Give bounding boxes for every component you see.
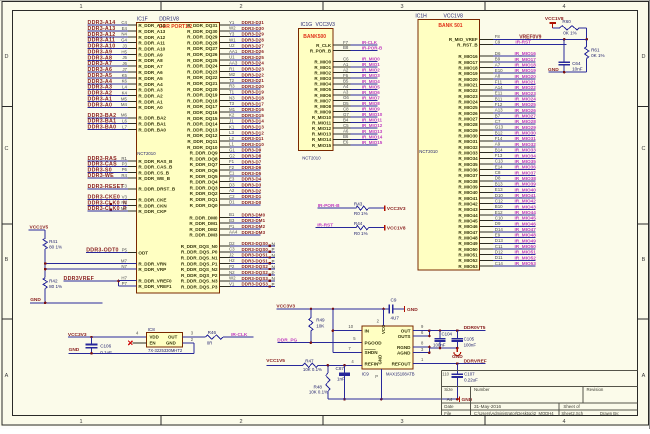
IC1F pin T3 net DDR3-D17 [187, 101, 264, 109]
svg-text:R_DDR_VRP: R_DDR_VRP [138, 267, 166, 272]
power VCC1V5 left [29, 225, 49, 231]
IC1F pin G4 net DDR3-A11 [88, 38, 166, 46]
svg-text:F8: F8 [495, 34, 501, 39]
svg-text:R_DDR_A8: R_DDR_A8 [138, 58, 163, 63]
IC1H pin F13 net IR_MIO34 [458, 153, 536, 161]
svg-text:C10: C10 [495, 215, 504, 220]
svg-text:4: 4 [562, 4, 565, 10]
IC1G pin C5 net IR_MIO12 [312, 123, 383, 131]
svg-text:R_DDR_DQ20: R_DDR_DQ20 [187, 87, 218, 92]
svg-text:DDR3-DQS1: DDR3-DQS1 [242, 253, 269, 258]
svg-text:R_DDR_DQ11: R_DDR_DQ11 [187, 139, 218, 144]
svg-text:L6: L6 [122, 119, 127, 124]
svg-text:R_DDR_DQ21: R_DDR_DQ21 [187, 81, 218, 86]
svg-text:DDR3-D8: DDR3-D8 [242, 154, 262, 159]
svg-text:DDR3-D23: DDR3-D23 [242, 67, 265, 72]
svg-text:110: 110 [442, 372, 449, 377]
svg-text:0.22uF: 0.22uF [464, 377, 478, 382]
svg-text:DDR3-DM1: DDR3-DM1 [242, 218, 266, 223]
IC1F pin C4 net DDR3-A14 [88, 20, 166, 28]
IC1G pin F7 net IR-CLK [316, 40, 378, 48]
IC1H pin D12 net IR_MIO51 [458, 249, 536, 257]
IC1G pin A3 net IR_MIO6 [314, 90, 380, 98]
svg-text:B13: B13 [495, 181, 503, 186]
IC1F pin P6 net DDR3-S0 [88, 167, 170, 175]
svg-text:NCT2010: NCT2010 [419, 149, 438, 154]
svg-text:10: 10 [348, 324, 353, 329]
IC1G pin B5 net IR_MIO4 [314, 79, 380, 87]
svg-text:F1: F1 [229, 159, 235, 164]
svg-text:D3: D3 [229, 182, 235, 187]
svg-text:R_DDR_DQ13: R_DDR_DQ13 [187, 127, 218, 132]
svg-text:R_DDR_DM1: R_DDR_DM1 [189, 221, 218, 226]
svg-text:IR_MIO29: IR_MIO29 [515, 125, 537, 130]
svg-text:BANK 501: BANK 501 [438, 23, 462, 29]
svg-text:OUT: OUT [168, 335, 178, 340]
IC1H pin A9 net IR_MIO32 [458, 142, 536, 150]
IC1H pin B12 net IR_MIO30 [458, 130, 536, 138]
svg-text:J6: J6 [122, 61, 127, 66]
svg-text:C8: C8 [343, 106, 349, 111]
ground GND left [30, 297, 102, 304]
svg-text:M2: M2 [121, 206, 128, 211]
svg-text:0K 1%: 0K 1% [563, 31, 577, 36]
svg-text:ODT: ODT [138, 251, 148, 256]
svg-text:IR_MIO0: IR_MIO0 [362, 57, 381, 62]
svg-text:C: C [5, 146, 9, 152]
IC1H pin C12 net IR_MIO42 [458, 198, 536, 206]
svg-text:R_MIO5: R_MIO5 [314, 87, 331, 92]
svg-text:DDR3-DQS2: DDR3-DQS2 [242, 270, 269, 275]
IC1F pin J7 net DDR3-A6 [88, 67, 164, 75]
IC1F pin K5 net DDR3-A5 [88, 73, 164, 81]
svg-text:E12: E12 [495, 210, 503, 215]
IC1F pin T2 net DDR3-D21 [187, 78, 264, 86]
svg-text:F2: F2 [229, 165, 235, 170]
svg-text:R_MIO1: R_MIO1 [314, 65, 331, 70]
net label DDR_PG wire to PGOOD [277, 336, 362, 344]
svg-text:C106: C106 [100, 344, 111, 349]
resistor R46 [205, 330, 223, 346]
IC1F pin M2 net DDR3-D22 [187, 72, 264, 80]
svg-text:R_DDR_CS_B: R_DDR_CS_B [138, 170, 169, 175]
IC1H pin D11 net IR_MIO52 [458, 255, 536, 263]
power VCC1V8 top right [545, 16, 564, 28]
svg-text:3: 3 [400, 419, 403, 425]
svg-text:B5: B5 [343, 79, 349, 84]
svg-text:C4: C4 [121, 20, 127, 25]
IC1H pin E11 net IR_MIO23 [458, 91, 536, 99]
IC1H pin B9 net IR_MIO17 [458, 57, 536, 65]
svg-text:R_DDR_DQ12: R_DDR_DQ12 [187, 133, 218, 138]
svg-text:R_DDR_DM3: R_DDR_DM3 [189, 233, 218, 238]
svg-text:IR_MIO45: IR_MIO45 [515, 216, 537, 221]
svg-text:L1: L1 [229, 142, 234, 147]
resistor R60 [553, 19, 587, 35]
svg-text:A2: A2 [229, 188, 235, 193]
svg-text:DDR3-A0: DDR3-A0 [88, 102, 113, 108]
net VCC1V5 and resistor R47 to REFIN [266, 358, 362, 372]
svg-text:R3: R3 [229, 84, 235, 89]
svg-text:DDR3-DQS0: DDR3-DQS0 [242, 241, 269, 246]
svg-text:C12: C12 [495, 198, 504, 203]
IC1H pin A7 net IR_MIO18 [458, 62, 536, 70]
IC1H pin C14 net IR_MIO53 [458, 261, 536, 269]
IC1F pin L2 net DDR3-D11 [187, 136, 264, 144]
IC IC1H body (BANK 501) [418, 20, 480, 271]
svg-text:R0 1%: R0 1% [354, 211, 368, 216]
svg-text:C6: C6 [343, 56, 349, 61]
svg-text:R_MIO28: R_MIO28 [458, 122, 478, 127]
svg-text:IR_MIO2: IR_MIO2 [362, 68, 381, 73]
svg-text:D12: D12 [495, 249, 504, 254]
svg-text:IR_MIO48: IR_MIO48 [515, 233, 537, 238]
IC1F pin K4 net DDR3-A2 [88, 90, 164, 98]
svg-text:R_DDR_A2: R_DDR_A2 [138, 94, 163, 99]
svg-text:IR-RST: IR-RST [515, 40, 531, 45]
svg-text:DDR3-ODT0: DDR3-ODT0 [86, 248, 119, 254]
svg-text:80 1%: 80 1% [49, 284, 62, 289]
svg-text:R_DDR_DQ26: R_DDR_DQ26 [187, 52, 218, 57]
IC1F pin B3 net DDR3-DM1 [189, 218, 265, 226]
IC1H pin E10 net IR_MIO19 [458, 68, 536, 76]
IC1F pin M2 net DDR3-CLK0_P [88, 206, 167, 214]
svg-text:R_MIO11: R_MIO11 [312, 121, 332, 126]
svg-text:DDR3-D3: DDR3-D3 [242, 183, 262, 188]
svg-text:IR_MIO15: IR_MIO15 [362, 140, 383, 145]
IC1F pin D1 net DDR3-D0 [190, 200, 262, 208]
svg-text:R_DDR_DQ0: R_DDR_DQ0 [190, 203, 218, 208]
svg-text:R_DDR_DQ29: R_DDR_DQ29 [187, 35, 218, 40]
svg-text:P3: P3 [122, 162, 128, 167]
svg-text:P5: P5 [122, 248, 128, 253]
svg-text:H2: H2 [229, 258, 235, 263]
svg-text:1: 1 [79, 419, 82, 425]
IC1F pin E3 net DDR3-D4 [190, 177, 262, 185]
svg-text:R_MIO30: R_MIO30 [458, 134, 478, 139]
IC1H pin A8 net IR_MIO20 [458, 74, 536, 82]
svg-text:IR_MIO42: IR_MIO42 [515, 199, 537, 204]
svg-text:A: A [642, 373, 646, 379]
IC1F pin M1 net DDR3-D16 [187, 107, 264, 115]
svg-text:R61: R61 [591, 48, 600, 53]
IC1F pin P1 net DDR3-DM2 [189, 224, 265, 232]
svg-text:C87: C87 [336, 366, 345, 371]
svg-text:IR_MIO40: IR_MIO40 [515, 187, 537, 192]
svg-text:IR_MIO44: IR_MIO44 [515, 210, 537, 215]
svg-text:GND: GND [69, 347, 80, 353]
svg-text:AA4: AA4 [229, 230, 238, 235]
svg-text:G7: G7 [343, 112, 349, 117]
svg-text:SHDN: SHDN [365, 350, 379, 355]
svg-text:DDR3-D0: DDR3-D0 [242, 200, 262, 205]
svg-text:R_MIO14: R_MIO14 [312, 137, 332, 142]
svg-text:IR_MIO38: IR_MIO38 [515, 176, 537, 181]
svg-text:GND: GND [378, 355, 383, 365]
svg-text:F13: F13 [495, 153, 503, 158]
svg-text:R_RST_B: R_RST_B [457, 42, 478, 47]
svg-text:VCC: VCC [381, 324, 386, 334]
IC1H pin E13 net IR_MIO40 [458, 187, 536, 195]
svg-text:IR_MIO9: IR_MIO9 [362, 107, 381, 112]
svg-text:N: N [272, 265, 275, 270]
wire OUT OUTS join [413, 324, 431, 337]
svg-text:DDR3-D16: DDR3-D16 [242, 107, 265, 112]
svg-text:IR_MIO22: IR_MIO22 [515, 85, 537, 90]
svg-text:H5: H5 [121, 49, 127, 54]
resistor R42 [43, 278, 62, 303]
svg-text:J7: J7 [122, 67, 127, 72]
svg-text:IR_MIO26: IR_MIO26 [515, 108, 537, 113]
zone ticks right margin [638, 105, 649, 107]
IC1G pin E6 net IR_MIO15 [312, 140, 383, 148]
svg-text:R_DDR_WE_B: R_DDR_WE_B [138, 176, 170, 181]
svg-text:R_MIO52: R_MIO52 [458, 258, 478, 263]
svg-text:IR-CLK: IR-CLK [362, 40, 378, 45]
svg-text:K5: K5 [122, 73, 128, 78]
net label DDR3VREF and VREF pins H7 P7 [64, 275, 173, 289]
net label DDR0VT5 output rail [429, 325, 485, 332]
svg-text:C104: C104 [442, 331, 453, 336]
svg-text:C3: C3 [229, 247, 235, 252]
svg-text:C9: C9 [391, 297, 397, 302]
IC1F pin L1 net DDR3-D10 [187, 142, 264, 150]
IC1F pin K2 net DDR3-D15 [187, 113, 264, 121]
resistor R41 [43, 230, 62, 249]
IC1H pin E9 net IR_MIO48 [458, 232, 536, 240]
IC1F pin Y3 net DDR3-D29 [187, 32, 264, 40]
IC1F pin N2 net DDR3-CLK0_N [88, 200, 168, 208]
IC1F pin AA1 net DDR3-D26 [187, 49, 264, 57]
svg-text:IC1G: IC1G [301, 22, 313, 28]
svg-text:A4: A4 [447, 397, 453, 402]
svg-text:10K 0.1%: 10K 0.1% [303, 367, 322, 372]
svg-text:4U7: 4U7 [391, 315, 400, 320]
svg-text:R_DDR_DQ17: R_DDR_DQ17 [187, 104, 218, 109]
svg-text:R_MIO22: R_MIO22 [458, 88, 478, 93]
svg-text:D: D [5, 54, 9, 60]
svg-text:1nF: 1nF [337, 376, 345, 381]
IC IC1G body (BANK500) [299, 28, 334, 150]
svg-text:R_MIO47: R_MIO47 [458, 230, 478, 235]
svg-text:R_DDR_A1: R_DDR_A1 [138, 99, 163, 104]
IC1H pin F12 net IR_MIO25 [458, 102, 536, 110]
svg-text:R_DDR_A6: R_DDR_A6 [138, 70, 163, 75]
svg-text:H7: H7 [121, 275, 127, 280]
svg-text:DDR3-D1: DDR3-D1 [242, 194, 262, 199]
svg-text:R_DDR_A0: R_DDR_A0 [138, 105, 163, 110]
no-connect X on EN pin [128, 341, 146, 345]
IC1F pin P2 net DDR3-DQS2 [181, 264, 275, 272]
svg-text:GND: GND [407, 307, 418, 313]
svg-text:R_DDR_A10: R_DDR_A10 [138, 47, 165, 52]
svg-text:M2: M2 [229, 72, 236, 77]
svg-text:B: B [642, 257, 646, 263]
svg-text:R_MIO33: R_MIO33 [458, 151, 478, 156]
svg-text:D8: D8 [495, 176, 501, 181]
svg-text:IR_MIO27: IR_MIO27 [515, 114, 537, 119]
IC1F pin E4 net DDR3-A13 [88, 26, 166, 34]
svg-text:R1: R1 [121, 156, 127, 161]
svg-text:R_DDR_DQS_N3: R_DDR_DQS_N3 [181, 279, 218, 284]
svg-text:R_DDR_A3: R_DDR_A3 [138, 88, 163, 93]
IC1G pin B8 net IR-POR-B [310, 45, 383, 53]
IC1F pin P3 net DDR3-CAS [88, 162, 174, 170]
IC1F pin F3 net DDR3-RESET [88, 184, 176, 192]
power VCC3V3 regulator rail [276, 304, 389, 311]
svg-text:80 1%: 80 1% [49, 244, 62, 249]
svg-text:L7: L7 [122, 124, 127, 129]
svg-text:R_MIO9: R_MIO9 [314, 110, 331, 115]
svg-text:R_MIO8: R_MIO8 [314, 104, 331, 109]
IC1H pin B14 net IR_MIO33 [458, 147, 536, 155]
svg-text:R_MIO26: R_MIO26 [458, 111, 478, 116]
svg-text:31-May-2016: 31-May-2016 [474, 404, 502, 409]
svg-text:R_DDR_BA1: R_DDR_BA1 [138, 122, 166, 127]
svg-text:R_DDR_DQ16: R_DDR_DQ16 [187, 110, 218, 115]
svg-text:G13: G13 [495, 125, 504, 130]
svg-text:C64: C64 [572, 61, 581, 66]
IC1F pin V3 net DDR3-CKE0 [88, 195, 167, 203]
svg-text:P7: P7 [122, 281, 128, 286]
svg-text:R_MIO15: R_MIO15 [312, 143, 332, 148]
net label IR-CLK [223, 332, 254, 338]
svg-text:A8: A8 [495, 74, 501, 79]
svg-text:10nF: 10nF [572, 67, 583, 72]
svg-text:R_DDR_DQS_P3: R_DDR_DQS_P3 [181, 285, 218, 290]
svg-text:P1: P1 [229, 224, 235, 229]
IC1F pin AA3 net DDR3-D24 [187, 61, 264, 69]
svg-text:D5: D5 [343, 101, 349, 106]
svg-text:IR_MIO18: IR_MIO18 [515, 63, 537, 68]
svg-text:0.1uF: 0.1uF [100, 350, 112, 355]
svg-text:B4: B4 [343, 118, 349, 123]
svg-text:R_DDR_DQ30: R_DDR_DQ30 [187, 29, 218, 34]
IC1F pin Y1 net DDR3-D31 [187, 20, 264, 28]
wire RGND AGND join to cap ground [413, 341, 459, 354]
svg-text:R_DDR_CKE: R_DDR_CKE [138, 198, 166, 203]
svg-text:R0 1%: R0 1% [354, 231, 368, 236]
svg-text:R_DDR_DQS_N2: R_DDR_DQS_N2 [181, 267, 218, 272]
svg-text:R_DDR_DQS_P2: R_DDR_DQS_P2 [181, 273, 218, 278]
svg-text:R43: R43 [354, 201, 363, 206]
IC1F pin K6 net DDR3-A4 [88, 79, 164, 87]
svg-text:C107: C107 [464, 371, 475, 376]
resistor R44 pullup IR-RST to VCC1V8 [315, 221, 384, 236]
IC1F pin J6 net DDR3-A7 [88, 61, 164, 69]
svg-text:M7: M7 [121, 258, 128, 263]
svg-text:G1: G1 [229, 148, 235, 153]
svg-text:L2: L2 [229, 136, 234, 141]
IC1G designator labels [301, 22, 336, 161]
svg-text:R_DDR_DQ22: R_DDR_DQ22 [187, 75, 218, 80]
svg-text:B1: B1 [229, 212, 235, 217]
svg-text:REFOUT: REFOUT [392, 361, 411, 366]
svg-text:DDR3-WE: DDR3-WE [88, 173, 115, 179]
svg-text:R_MIO41: R_MIO41 [458, 196, 478, 201]
svg-text:IR_MIO24: IR_MIO24 [515, 97, 537, 102]
ground GND at oscillator [69, 347, 194, 355]
svg-text:N2: N2 [121, 200, 127, 205]
svg-text:IR_MIO33: IR_MIO33 [515, 148, 537, 153]
svg-text:T3: T3 [229, 101, 235, 106]
svg-text:IR_MIO28: IR_MIO28 [515, 119, 537, 124]
svg-text:IR_MIO11: IR_MIO11 [362, 118, 383, 123]
svg-text:R_MIO10: R_MIO10 [312, 115, 332, 120]
svg-text:F14: F14 [495, 136, 503, 141]
svg-text:G4: G4 [121, 38, 127, 43]
svg-text:B14: B14 [495, 147, 503, 152]
svg-text:GND: GND [30, 297, 41, 303]
svg-text:IR_MIO19: IR_MIO19 [515, 68, 537, 73]
ground GND under C105 [452, 348, 463, 360]
svg-text:R44: R44 [354, 221, 363, 226]
svg-text:DDR3-DM0: DDR3-DM0 [242, 212, 266, 217]
svg-text:R_DDR_BA2: R_DDR_BA2 [138, 116, 166, 121]
IC1F pin L7 net DDR3-BA0 [88, 124, 167, 132]
IC1F pin H2 net DDR3-DQS1 [181, 258, 275, 266]
svg-text:P: P [272, 282, 275, 287]
svg-text:R_MIO34: R_MIO34 [458, 156, 478, 161]
svg-text:VCC3V3: VCC3V3 [316, 22, 336, 28]
svg-text:DDR3-D21: DDR3-D21 [242, 78, 265, 83]
ground GND power port bottom rail [457, 397, 472, 404]
svg-text:R_DDR_DQS_P0: R_DDR_DQS_P0 [181, 250, 218, 255]
svg-text:R_MIO31: R_MIO31 [458, 139, 478, 144]
capacitor C87 [336, 365, 351, 400]
svg-text:Size: Size [444, 387, 453, 392]
svg-text:DDR3-D18: DDR3-D18 [242, 96, 265, 101]
svg-text:G6: G6 [343, 95, 349, 100]
svg-text:IR_MIO36: IR_MIO36 [515, 165, 537, 170]
svg-text:DDR3-D24: DDR3-D24 [242, 61, 265, 66]
IC1F pin G2 net DDR3-D8 [190, 153, 262, 161]
svg-text:R_MIO51: R_MIO51 [458, 253, 478, 258]
svg-text:R_MIO6: R_MIO6 [314, 93, 331, 98]
zone ticks bottom margin [160, 416, 162, 426]
svg-text:D: D [642, 54, 646, 60]
IC1H pin C11 net IR_MIO50 [458, 244, 536, 252]
svg-text:R_MIO37: R_MIO37 [458, 173, 478, 178]
svg-text:M6: M6 [121, 113, 128, 118]
svg-text:R_MIO39: R_MIO39 [458, 185, 478, 190]
IC IC1F body (DDR PORT1/2) [136, 22, 219, 293]
svg-text:M5: M5 [121, 96, 128, 101]
svg-text:R_MIO40: R_MIO40 [458, 190, 478, 195]
svg-text:IR_MIO4: IR_MIO4 [362, 79, 381, 84]
IC1G pin D5 net IR_MIO8 [314, 101, 380, 109]
IC1H pin C7 net IR_MIO28 [458, 119, 536, 127]
IC1F pin C2 net DDR3-D1 [190, 194, 262, 202]
IC1F pin G1 net DDR3-D9 [190, 148, 262, 156]
svg-text:R_MIO19: R_MIO19 [458, 71, 478, 76]
svg-text:A1: A1 [343, 62, 349, 67]
IC1F pin E1 net DDR3-D5 [190, 171, 262, 179]
svg-text:BANK500: BANK500 [303, 34, 326, 40]
svg-text:R41: R41 [49, 239, 58, 244]
svg-text:R_MIO0: R_MIO0 [314, 60, 331, 65]
svg-text:R_MIO2: R_MIO2 [314, 71, 331, 76]
IC1H pin A14 net IR_MIO22 [458, 85, 536, 93]
IC1F designator and rail labels [137, 16, 192, 156]
svg-text:R_DDR_A7: R_DDR_A7 [138, 64, 163, 69]
svg-text:IR_MIO31: IR_MIO31 [515, 136, 537, 141]
svg-text:R_MIO50: R_MIO50 [458, 247, 478, 252]
svg-text:R_MIO23: R_MIO23 [458, 94, 478, 99]
svg-text:A2: A2 [343, 68, 349, 73]
svg-text:100nF: 100nF [464, 342, 477, 347]
svg-text:AA3: AA3 [229, 61, 238, 66]
